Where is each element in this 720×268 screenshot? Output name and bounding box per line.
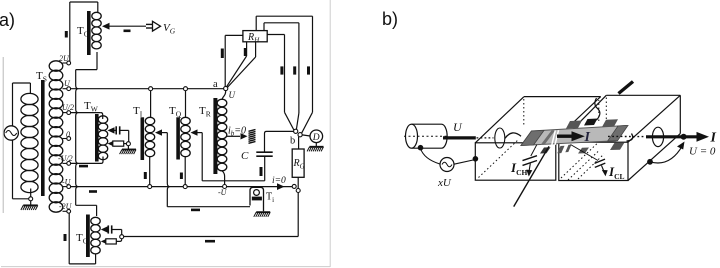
ICL arrow: [602, 166, 605, 172]
dashed centerline: [404, 135, 447, 137]
TC upper wiper arrow: [101, 226, 108, 232]
wire C top to node b: [265, 131, 294, 151]
svg-text:TS: TS: [36, 70, 47, 84]
polarity dash below -U bus: [89, 190, 97, 193]
ground (TS primary): [30, 201, 32, 205]
tap stubs and circles: [63, 62, 67, 64]
capacitor (TC wiper): [107, 229, 109, 231]
transformer TW winding: [98, 116, 107, 123]
capacitor (TW wiper): [115, 129, 117, 131]
ground (D): [315, 143, 317, 147]
dotted conductor inside left box: [477, 137, 494, 139]
resistor RH: [243, 31, 267, 42]
TG wiper arrow and VG line: [102, 23, 110, 30]
svg-text:I: I: [710, 131, 717, 146]
-U bus wire: [71, 186, 293, 188]
transformer TR core: [213, 98, 217, 174]
wire source bottom to primary bottom: [12, 140, 14, 199]
right box bottom receding edge: [628, 134, 680, 181]
svg-text:xU: xU: [437, 177, 452, 189]
helix contact element: [249, 130, 256, 132]
fan line 2 from node a: [227, 57, 255, 88]
conductor arch: [505, 133, 521, 139]
polarity dash on VG line: [124, 30, 131, 33]
polarity dash TG: [65, 31, 68, 38]
dotted conductor inside right box: [608, 135, 646, 137]
polarity dash TC: [64, 234, 67, 241]
ib=0 branch: [227, 135, 240, 137]
electrode patch front 2b: [565, 145, 571, 153]
bold slash (cut mark): [619, 82, 634, 94]
wire b down to RG: [298, 137, 300, 149]
right box front face: [559, 142, 628, 180]
wire b to detector D: [302, 135, 310, 136]
svg-text:a: a: [213, 79, 218, 90]
plate right end cap (dark): [608, 125, 629, 141]
transformer TS secondary winding: [49, 61, 63, 71]
svg-text:TR: TR: [199, 105, 211, 119]
svg-text:TQ: TQ: [169, 105, 182, 119]
RH top stub outer: [255, 16, 257, 30]
left box back-top edge: [524, 96, 601, 98]
node -U (TR bottom): [223, 185, 227, 189]
electrode patch back 1: [566, 121, 582, 129]
ICL lead: [571, 145, 599, 161]
svg-text:0: 0: [66, 130, 70, 139]
svg-text:TW: TW: [84, 100, 99, 114]
RH right lead: [267, 34, 284, 36]
ground (TN): [256, 211, 270, 213]
measuring electrode plate: [521, 126, 626, 146]
polarity dash TI: [144, 172, 147, 179]
node b circles: [294, 129, 298, 133]
TQ bottom wire: [184, 157, 186, 184]
resistor box (TW wiper): [113, 141, 124, 146]
svg-text:-U: -U: [218, 188, 228, 197]
faint page border line left: [2, 57, 4, 213]
transformer TG core: [87, 11, 91, 55]
electrode patch front 1: [540, 147, 551, 153]
electrode patch back black: [584, 119, 598, 126]
electrode patch front 3: [578, 148, 589, 154]
transformer TQ core: [176, 117, 180, 159]
transformer TC winding: [91, 217, 100, 224]
plate dark strip left of slit: [541, 130, 556, 145]
svg-text:U: U: [453, 120, 463, 134]
TW upper wiper arrow: [108, 127, 115, 133]
resistor box (TC wiper): [106, 239, 117, 244]
right box top-left receding edge (partial): [574, 95, 607, 128]
entry hole ellipse: [495, 128, 505, 148]
svg-text:-U: -U: [62, 178, 72, 187]
wire U bus down to TI: [150, 91, 152, 117]
U bus wire: [71, 88, 224, 90]
transformer TC core: [86, 215, 90, 258]
long slash through gap: [514, 146, 549, 206]
svg-text:ib=0: ib=0: [228, 126, 246, 138]
svg-text:U = 0: U = 0: [689, 146, 716, 158]
TN core: [252, 197, 262, 201]
exit loop ellipse: [652, 127, 663, 146]
TQ wiper arrow: [191, 129, 198, 135]
right box hidden back-left vertical (dotted): [605, 98, 607, 122]
TN turn: [254, 190, 260, 196]
right box hidden floor diagonal (dotted): [561, 135, 606, 178]
faint page border line right: [329, 0, 331, 267]
capacitor C: [256, 151, 272, 153]
transformer TI core: [141, 117, 145, 160]
wire TQ wiper to C bottom at y=180.8: [202, 180, 265, 182]
electrode patch right end: [610, 143, 625, 151]
transformer TS core: [41, 80, 45, 196]
TI wiper arrow: [155, 129, 162, 135]
U/2 wire to TW top: [71, 112, 101, 114]
RH top stub inner: [263, 23, 265, 31]
polarity dash near C: [260, 167, 263, 176]
transformer TS primary winding: [21, 93, 38, 104]
ground (TW wiper): [127, 146, 129, 150]
-U/2 wire to TW bottom: [71, 162, 101, 164]
wire -2U tap down to TC bottom: [68, 213, 70, 264]
wire node a up to RH left: [224, 35, 226, 86]
TI wiper wire down (jog at -U bus): [167, 133, 170, 207]
node primary ground: [29, 197, 33, 201]
svg-text:TC: TC: [76, 232, 88, 246]
transformer TQ winding: [181, 117, 190, 124]
AC source: [4, 126, 18, 140]
node TI top: [149, 87, 153, 91]
wire node a down to TR: [222, 91, 226, 100]
tap wire squiggle: [595, 98, 600, 120]
svg-text:i=0: i=0: [272, 176, 286, 186]
i=0 arrow on -U bus: [277, 183, 285, 190]
transformer TN arch: [250, 187, 264, 211]
TW lower wiper arrow: [108, 140, 115, 146]
dot on conductor: [681, 134, 687, 140]
left box hidden floor diagonal (dotted): [479, 139, 520, 178]
right box back-top edge: [606, 94, 680, 96]
svg-text:b): b): [382, 9, 398, 29]
polarity dash below loop wire: [191, 209, 200, 212]
svg-text:U: U: [229, 90, 236, 100]
TC lower wiper arrow: [101, 238, 108, 244]
loop wire TI wiper to TN: [167, 206, 250, 208]
wire U bus down to TQ: [185, 91, 187, 117]
dot on cylinder: [418, 145, 424, 151]
transformer TI winding: [145, 117, 154, 124]
long wire RG to TC: [297, 193, 299, 237]
ICH lead: [531, 145, 537, 156]
fan line 1 from node a: [227, 56, 247, 87]
node TQ top: [184, 87, 188, 91]
svg-text:D: D: [312, 133, 320, 143]
svg-text:TI: TI: [133, 105, 143, 119]
resistor RG: [292, 149, 304, 177]
right box top-right receding edge: [628, 95, 680, 142]
node TW wiper: [126, 142, 130, 146]
polarity dash left of RH lead: [221, 49, 224, 59]
svg-text:2U: 2U: [59, 54, 70, 63]
svg-text:VG: VG: [163, 22, 176, 36]
current arrow I on plate: [557, 134, 572, 137]
open arrow VG: [146, 23, 153, 25]
TG bottom wire to long vertical: [96, 52, 98, 70]
polarity dashes on vertical leads: [280, 66, 283, 74]
polarity dash TQ: [180, 173, 183, 180]
dot on box edge: [473, 156, 479, 162]
curved arrow to conductor: [650, 146, 683, 163]
terminal circle (RG side): [296, 189, 300, 193]
left box top-left receding edge: [475, 97, 524, 143]
right box hidden floor diagonal 2 (dotted): [568, 152, 598, 181]
faint page border line bottom: [1, 266, 330, 268]
polarity dash below long wire: [205, 240, 215, 243]
svg-text:ICH: ICH: [510, 160, 527, 177]
ICL capacitor plates: [595, 159, 606, 163]
lead convergence into node b: [285, 112, 294, 130]
transformer TR winding: [217, 99, 227, 107]
wire source top to primary: [12, 83, 14, 126]
long vertical wire TG to TC (with crossover jogs): [76, 70, 79, 206]
left box top-right receding edge (partial): [569, 97, 601, 127]
svg-text:a): a): [0, 10, 15, 30]
electrode patch front 2a: [557, 146, 564, 154]
cable cylinder: [406, 124, 418, 148]
left box front face: [475, 143, 556, 180]
source xU: [440, 158, 454, 172]
left box hidden back-left vertical (dotted): [523, 99, 525, 127]
svg-text:Ti: Ti: [266, 192, 274, 205]
right end hook: [627, 134, 633, 142]
wire dot to xU source: [421, 149, 440, 165]
dot on bottom edge: [647, 159, 653, 165]
thick conductor U: [443, 136, 476, 139]
wire xU to box: [454, 160, 475, 165]
svg-text:U/2: U/2: [62, 103, 74, 112]
node TC output: [120, 235, 124, 239]
electrode patch back 2: [602, 119, 618, 127]
svg-text:C: C: [241, 150, 249, 162]
terminal circle (bus end): [292, 184, 296, 188]
plate left end cap (dark): [521, 130, 544, 145]
polarity dash on fan: [244, 48, 247, 56]
svg-text:I: I: [584, 130, 591, 145]
wire C bottom: [264, 156, 266, 181]
svg-text:b: b: [290, 136, 295, 147]
right box back-right vertical: [679, 95, 681, 133]
thick conductor I out: [646, 135, 698, 138]
wire 2U tap up to TG: [69, 2, 71, 61]
svg-text:-2U: -2U: [59, 202, 73, 211]
TR bottom wire to -U node: [222, 171, 225, 185]
wire primary bottom to node: [30, 189, 32, 197]
TI bottom wire to -U bus: [149, 157, 151, 185]
transformer TG winding: [92, 12, 101, 19]
svg-text:-U/2: -U/2: [58, 154, 73, 163]
plate slit white lines: [552, 130, 556, 145]
detector D: [310, 130, 323, 143]
right box hidden floor diagonal 3 (dotted): [578, 154, 604, 179]
wire RG bottom to terminal: [297, 177, 299, 188]
ICH capacitor plates: [523, 156, 538, 161]
polarity dash below -U/2 wire: [79, 165, 88, 168]
svg-text:ICL: ICL: [608, 164, 624, 181]
transformer TW core: [95, 114, 99, 162]
ICH arrow: [529, 164, 530, 171]
node a: [224, 86, 228, 90]
